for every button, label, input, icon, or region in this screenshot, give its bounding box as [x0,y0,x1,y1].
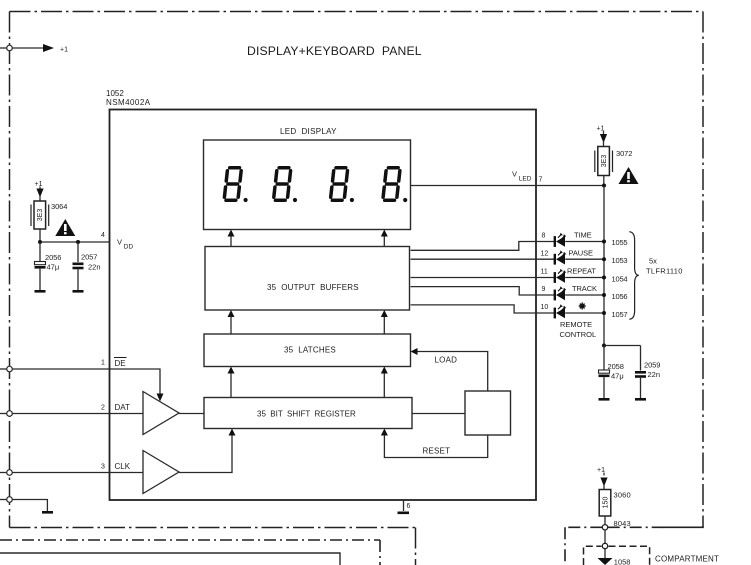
svg-text:CLK: CLK [115,462,131,471]
svg-text:8: 8 [542,233,546,240]
wire R3060 to node 8043 [604,516,606,525]
node connector ground stub [0,497,12,503]
LED 1056 TRACK [554,286,567,300]
wire LED TRACK to bus [565,294,604,296]
svg-text:150: 150 [602,497,609,509]
wire LED remote to bus [565,312,604,314]
svg-text:1058: 1058 [614,558,631,565]
wire LOAD net [411,348,488,391]
svg-text:LED DISPLAY: LED DISPLAY [280,127,337,136]
digit 4 [383,168,407,202]
wire 8043 rail right [608,526,665,528]
svg-text:REPEAT: REPEAT [567,267,596,276]
svg-text:LED: LED [519,176,532,183]
ground C2056 [35,290,46,293]
wire pin 9 to LED TRACK [411,287,554,295]
capacitor C2057 [73,242,84,290]
svg-text:3072: 3072 [616,149,632,158]
node connector top-left [0,45,12,51]
wire LED anode bus [603,186,605,346]
LED 1058 [598,558,613,565]
ground C2059 [635,398,646,401]
svg-text:PAUSE: PAUSE [569,249,593,258]
digit 3 [331,168,354,202]
svg-text:1054: 1054 [612,275,628,284]
svg-text:1056: 1056 [612,292,628,301]
svg-text:DAT: DAT [115,403,131,412]
node compartment feed [602,543,607,548]
label star [579,303,586,310]
ground pin 6 [398,512,410,515]
svg-text:7: 7 [539,177,543,184]
junction 1055 [602,240,606,244]
IC U1052 outline [110,110,537,501]
svg-text:35 BIT SHIFT REGISTER: 35 BIT SHIFT REGISTER [257,410,356,419]
wire CLK [12,472,143,474]
svg-text:+1: +1 [35,181,43,188]
brace 5x TLFR1110 [629,232,639,320]
svg-text:8043: 8043 [614,519,631,528]
node connector CLK [0,470,12,476]
svg-text:TRACK: TRACK [572,284,597,293]
svg-text:3064: 3064 [51,202,67,211]
svg-text:22n: 22n [88,263,101,272]
svg-text:5x: 5x [649,257,657,266]
supply arrow into R3072 [600,131,607,147]
svg-text:47μ: 47μ [47,263,60,272]
load pulse box [465,391,511,435]
svg-text:3: 3 [101,464,105,471]
junction VDD-C2056 [38,240,42,244]
output buffers box [205,247,410,311]
arrow display-left from buffers [228,230,235,247]
svg-text:DISPLAY+KEYBOARD PANEL: DISPLAY+KEYBOARD PANEL [247,44,422,58]
junction 1054 [602,276,606,280]
wire DAT [12,413,143,415]
junction 1056 [602,293,606,297]
wire CLK amp to shift register [179,429,236,473]
wire 8043 rail to right border [663,526,703,527]
supply arrow into R3060 [600,473,607,490]
ground C2057 [73,290,84,293]
node 8043 [602,525,607,530]
svg-text:V: V [117,238,122,247]
svg-text:2059: 2059 [644,361,660,370]
warning triangle left [55,219,75,236]
wire LED PAUSE to bus [565,258,604,260]
svg-text:2058: 2058 [608,362,624,371]
wire DAT amp to shift register [179,413,204,415]
shift register box [204,398,412,429]
svg-text:2056: 2056 [45,253,61,262]
svg-text:3060: 3060 [614,491,631,500]
wire R3072 to VLED junction [603,176,605,186]
compartment boundary line 2 [0,540,380,565]
ground C2058 [599,398,610,401]
svg-text:1052: 1052 [106,89,124,98]
resistor 3072 [595,147,613,176]
svg-text:V: V [512,170,517,179]
LED display box [204,140,411,230]
LED 1055 TIME [554,233,567,247]
junction VDD-C2057 [76,240,80,244]
wire pin 8 to LED TIME [411,242,554,251]
svg-text:6: 6 [407,503,411,510]
svg-text:12: 12 [541,251,549,258]
svg-text:35 OUTPUT BUFFERS: 35 OUTPUT BUFFERS [267,283,359,292]
buffer amp DAT [143,392,179,435]
svg-text:REMOTE: REMOTE [560,320,592,329]
junction 1057 [602,311,606,315]
svg-text:RESET: RESET [423,447,451,456]
junction decoupling node [602,344,606,348]
supply arrow into R3064 [36,187,43,202]
block outline bottom-left [0,553,340,565]
capacitor C2059 [635,346,646,399]
capacitor C2056 [35,242,46,290]
svg-text:NSM4002A: NSM4002A [106,98,151,107]
node connector DE [0,366,12,372]
wire 8043 down to compartment node [604,530,606,543]
svg-text:11: 11 [541,269,548,276]
svg-text:3E3: 3E3 [37,209,44,222]
pin 6 wire [403,500,405,511]
svg-text:3E3: 3E3 [601,155,608,168]
wire pin 12 to LED PAUSE [411,258,554,260]
svg-text:4: 4 [101,232,105,239]
ground bottom-left [42,511,53,514]
label DE with overline [114,358,127,369]
wire to LED 1058 [604,549,606,558]
junction VLED bus [602,184,606,188]
wire shift register to load box [412,413,465,415]
svg-text:2057: 2057 [81,253,97,262]
latches box [204,334,411,367]
wire LED REPEAT to bus [565,277,604,279]
node connector DAT [0,411,12,417]
LED 1057 remote [554,304,567,318]
digit 1 [224,168,247,202]
wire ground stub [12,500,47,512]
wire LED TIME to bus [565,241,604,243]
arrow display-right from buffers [381,230,388,247]
compartment dashed box [584,546,650,565]
LED 1054 REPEAT [554,269,567,283]
wire 8043 rail left [565,527,602,565]
wire VLED pin7 [411,185,605,187]
wire +1 feed arrow [12,44,54,52]
svg-text:2: 2 [101,405,105,412]
LED 1053 PAUSE [554,250,567,264]
warning triangle right [619,167,639,184]
svg-text:LOAD: LOAD [435,356,458,365]
svg-text:9: 9 [542,286,546,293]
svg-text:COMPARTMENT: COMPARTMENT [655,555,719,564]
arrow latches-right from shift register [381,367,388,398]
svg-text:CONTROL: CONTROL [560,330,597,339]
arrow buffers-right from latches [381,310,388,334]
resistor 3060 [599,490,611,517]
label VDD [117,238,133,251]
svg-text:35 LATCHES: 35 LATCHES [284,346,336,355]
wire VDD [40,241,110,243]
buffer amp CLK [143,451,179,494]
wire DE [12,369,163,402]
arrow buffers-left from latches [228,310,235,334]
svg-text:1053: 1053 [612,256,628,265]
label REMOTE CONTROL [560,320,597,339]
wire R3064 to VDD node [39,229,41,242]
wire RESET net [381,429,488,458]
svg-text:47μ: 47μ [611,372,624,381]
label VLED [512,170,532,183]
svg-text:TIME: TIME [574,231,592,240]
wire pin 10 to LED remote [411,305,554,313]
capacitor C2058 [599,346,610,399]
svg-text:22n: 22n [648,370,661,379]
resistor 3064 [31,201,49,229]
svg-text:DE: DE [115,359,126,368]
svg-text:10: 10 [541,304,549,311]
svg-text:TLFR1110: TLFR1110 [646,267,683,276]
digit 2 [274,168,297,202]
svg-text:1: 1 [101,360,105,367]
junction 1053 [602,257,606,261]
wire pin 11 to LED REPEAT [411,277,554,279]
svg-text:1057: 1057 [612,310,628,319]
wire to C2059 [604,345,641,347]
svg-text:1055: 1055 [612,238,628,247]
svg-text:DD: DD [124,244,134,251]
arrow latches-left from shift register [228,367,235,398]
svg-text:+1: +1 [60,47,68,54]
